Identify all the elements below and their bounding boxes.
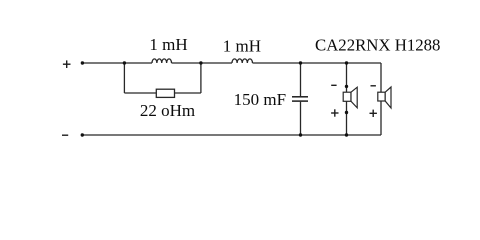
node dot cap bottom	[299, 133, 302, 136]
wire parallel branch bottom right	[175, 92, 201, 94]
wire top rail right	[253, 62, 382, 64]
node dot speaker1 bottom rail	[345, 133, 348, 136]
speaker SP2 cone	[385, 87, 391, 108]
capacitor C1 top plate	[292, 96, 308, 98]
speaker1 polarity -	[331, 84, 336, 86]
node dot speaker1 upper terminal	[345, 85, 348, 88]
svg-text:1 mH: 1 mH	[149, 35, 187, 54]
inductor L1 1 mH coil	[152, 59, 172, 63]
wire top rail middle	[172, 62, 233, 64]
speaker2 polarity -	[371, 85, 376, 87]
wire parallel branch right vertical	[200, 63, 202, 93]
terminal - input	[62, 134, 68, 136]
svg-text:150 mF: 150 mF	[234, 90, 286, 109]
wire parallel branch bottom left	[124, 92, 156, 94]
node dot input -	[81, 133, 84, 136]
resistor R1 22 oHm body	[156, 89, 174, 97]
node dot speaker1 top rail	[345, 61, 348, 64]
capacitor C1 bottom plate	[292, 100, 308, 102]
speaker1 polarity +	[331, 112, 338, 114]
wire right vertical	[380, 63, 382, 135]
node dot parallel right	[199, 61, 202, 64]
wire parallel branch left vertical	[123, 63, 125, 93]
node dot input +	[81, 61, 84, 64]
speaker2 polarity +	[370, 112, 377, 114]
speaker SP2 driver rect	[378, 92, 385, 101]
wire capacitor vertical top	[300, 63, 302, 96]
svg-text:1 mH: 1 mH	[223, 37, 261, 56]
wire bottom rail	[82, 134, 381, 136]
svg-text:CA22RNX H1288: CA22RNX H1288	[315, 36, 440, 55]
speaker SP1 driver rect	[343, 92, 351, 101]
speaker SP1 cone	[351, 87, 357, 108]
wire capacitor vertical bottom	[300, 102, 302, 135]
svg-text:22 oHm: 22 oHm	[140, 101, 195, 120]
inductor L2 1 mH coil	[232, 59, 252, 63]
node dot parallel left	[123, 61, 126, 64]
node dot cap top	[299, 61, 302, 64]
node dot speaker1 lower terminal	[345, 111, 348, 114]
wire speaker1 vertical	[346, 63, 348, 135]
wire top rail	[82, 62, 152, 64]
terminal + input	[63, 63, 71, 65]
